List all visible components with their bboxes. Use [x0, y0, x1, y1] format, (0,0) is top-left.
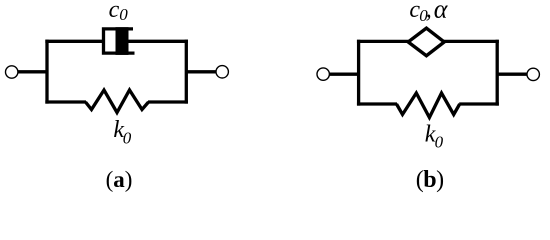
wire: right edge of loop (b) — [496, 40, 499, 106]
wire: top edge left segment (a) — [45, 40, 103, 43]
wire: left lead (a) — [18, 70, 48, 73]
wire: left lead (b) — [330, 73, 361, 76]
svg-text:c: c — [109, 0, 120, 23]
terminal circle right (b) — [527, 68, 539, 80]
damper cylinder c0 (a) — [104, 29, 135, 53]
wire: top edge (b) — [357, 40, 499, 43]
svg-text:0: 0 — [123, 129, 132, 148]
wire: left edge of loop (b) — [357, 40, 360, 106]
terminal circle right (a) — [216, 66, 228, 78]
svg-text:0: 0 — [119, 5, 128, 24]
wire: right lead (b) — [497, 73, 527, 76]
spring k0 (a) — [86, 90, 149, 113]
svg-text:(b): (b) — [416, 167, 444, 193]
spring k0 (b) — [397, 93, 460, 118]
wire: bottom edge right segment (a) — [148, 100, 188, 103]
wire: bottom edge left segment (a) — [45, 100, 86, 103]
wire: left edge of loop (a) — [45, 40, 48, 104]
wire: right edge of loop (a) — [185, 40, 188, 104]
svg-text:,: , — [426, 0, 432, 23]
wire: top edge right segment / damper rod (a) — [127, 40, 188, 43]
svg-text:α: α — [434, 0, 449, 23]
svg-text:(a): (a) — [106, 167, 133, 192]
wire: bottom edge left segment (b) — [357, 102, 397, 105]
wire: right lead (a) — [187, 70, 216, 73]
damper piston c0 (a) — [116, 27, 129, 55]
fractional damper diamond c0,alpha (b) — [408, 28, 444, 56]
terminal circle left (a) — [6, 66, 18, 78]
svg-text:0: 0 — [435, 132, 444, 151]
terminal circle left (b) — [317, 68, 329, 80]
wire: bottom edge right segment (b) — [459, 102, 499, 105]
